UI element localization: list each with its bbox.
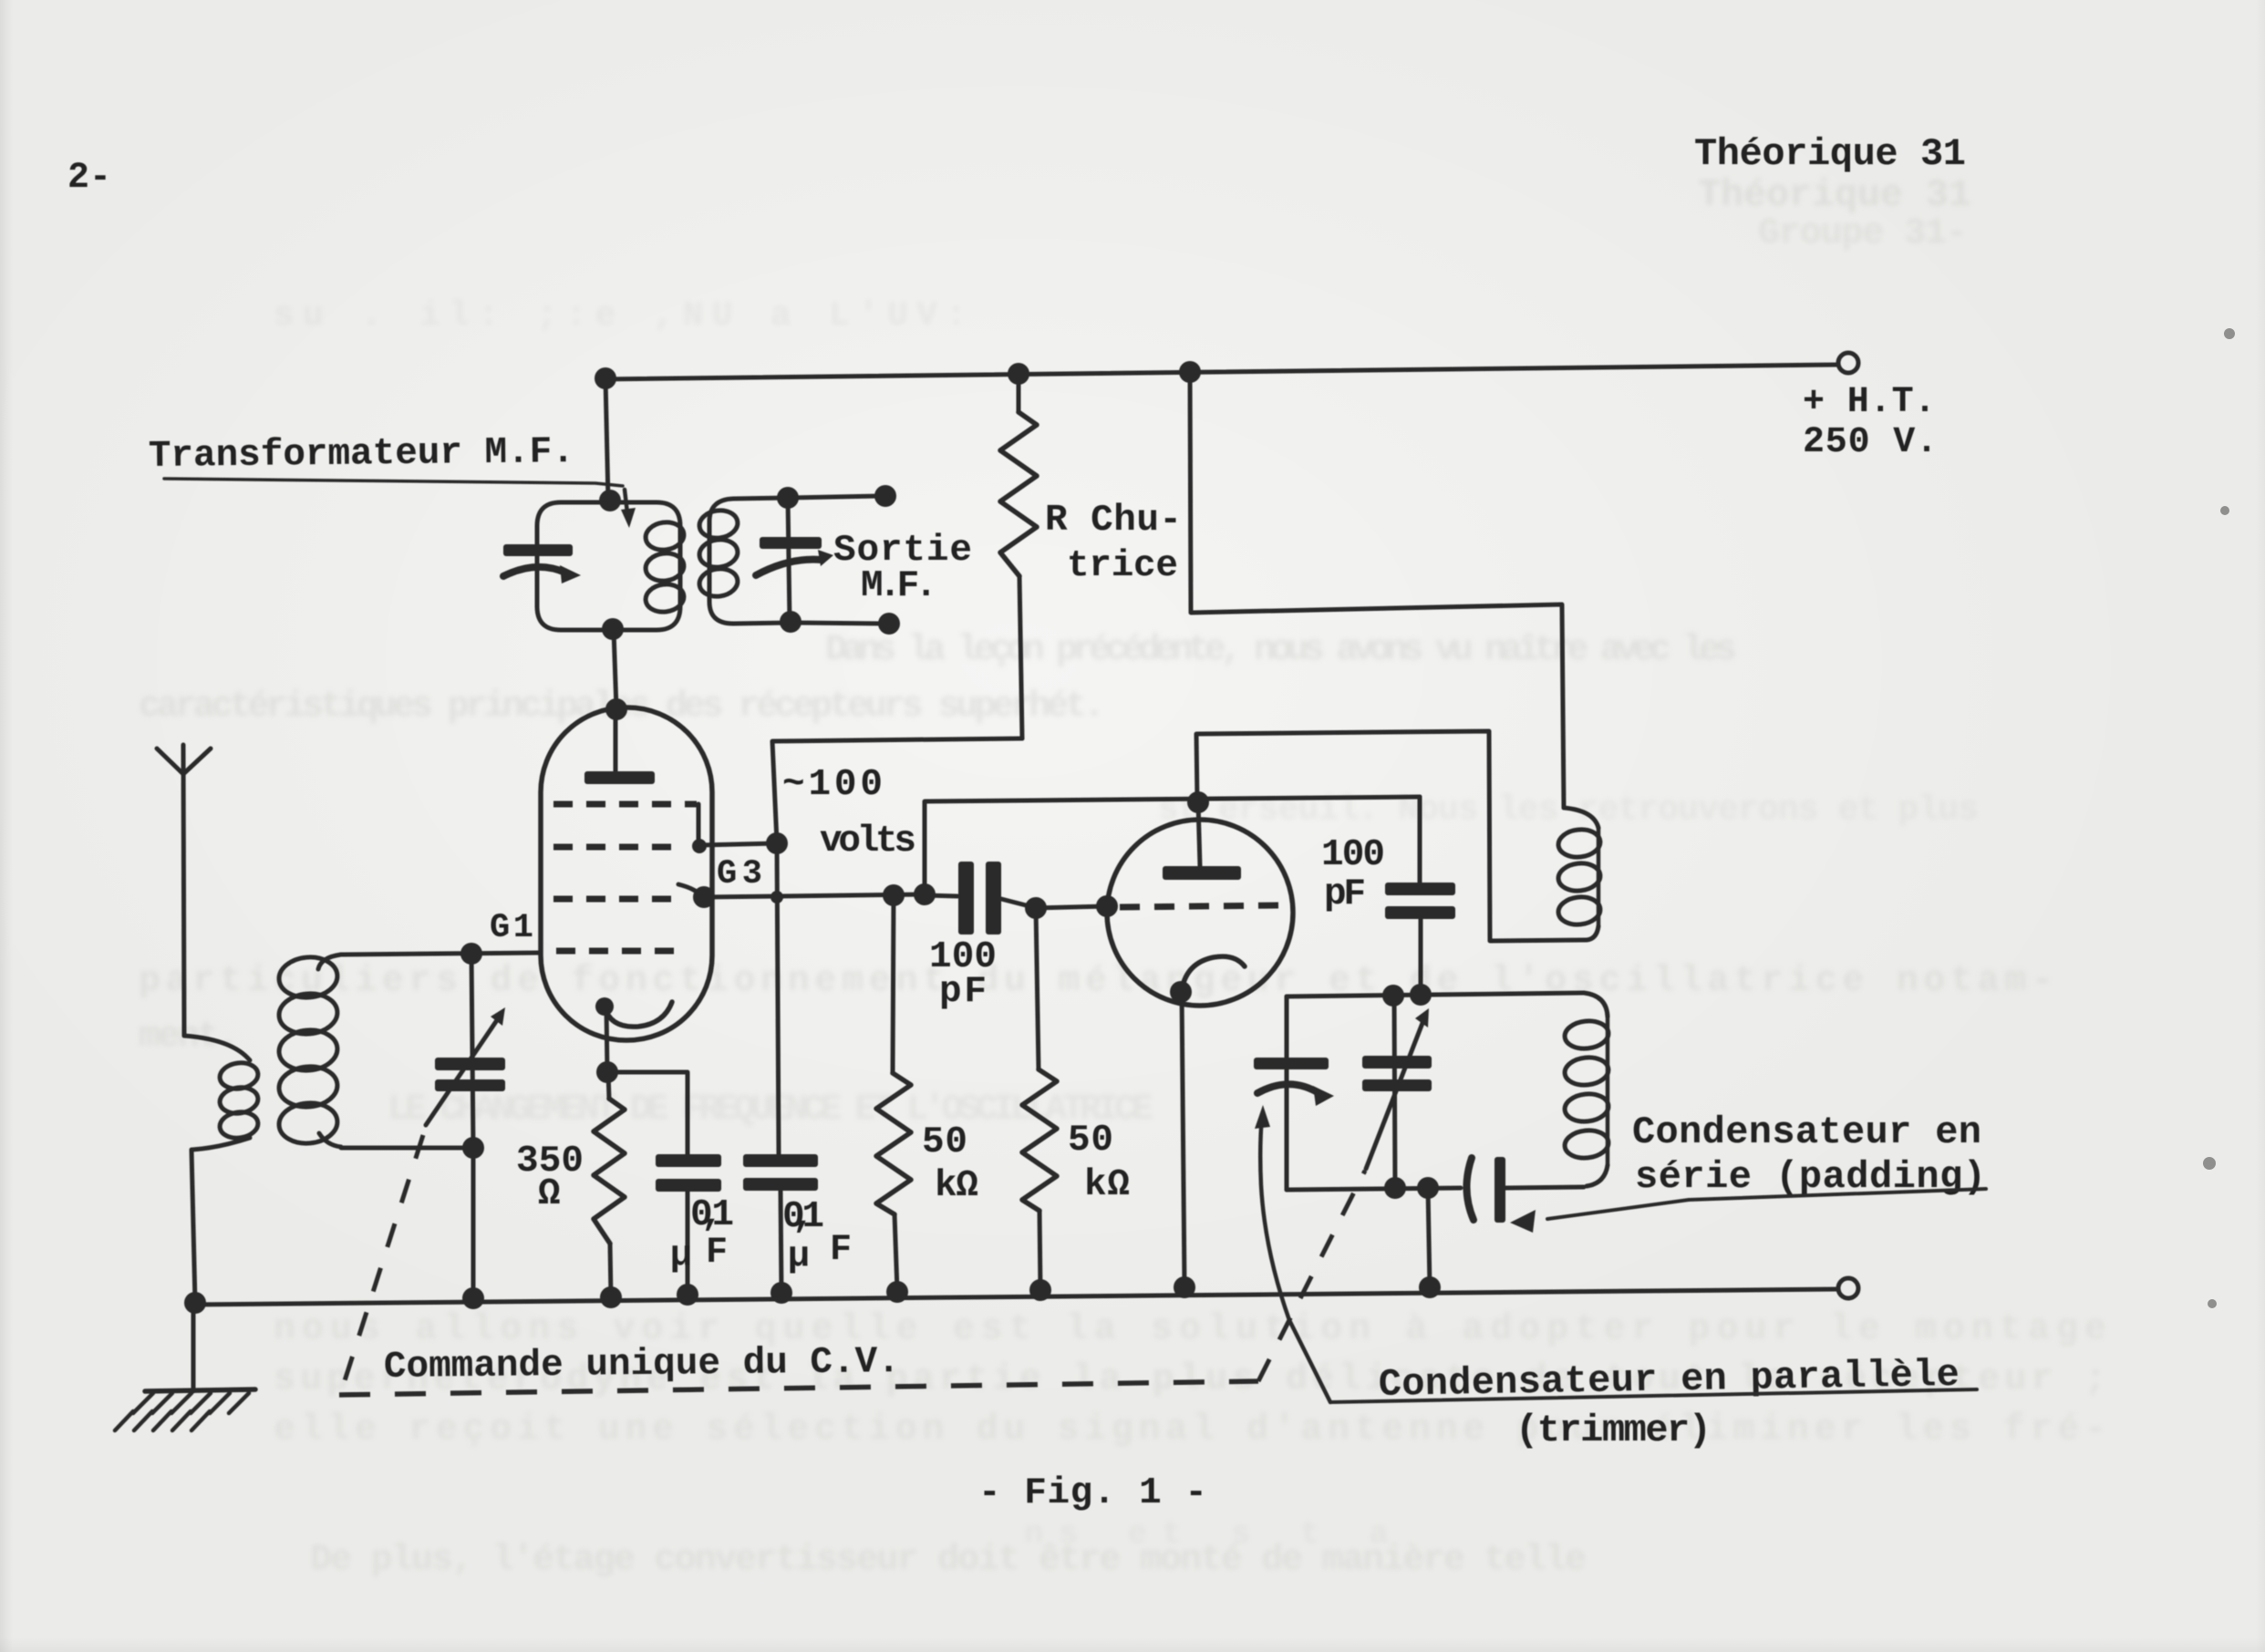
- V1 grid G1 (dashed): [556, 948, 678, 955]
- arrow to IF transformer: [625, 490, 627, 513]
- IF transformer primary tank box: [537, 502, 680, 630]
- tube V1 heptode envelope: [541, 707, 712, 1040]
- node: bus / R chutrice junction: [1008, 363, 1029, 385]
- paper specks: [2203, 328, 2235, 1308]
- antenna: [183, 745, 184, 1036]
- variable capacitor of IF primary: curved plate with arrow: [503, 567, 565, 576]
- CV input arrow: [426, 1017, 499, 1125]
- wire: input tank top to G1: [341, 953, 541, 955]
- node: corner to anode line: [914, 883, 936, 905]
- svg-text:2-: 2-: [67, 158, 111, 199]
- variable capacitor of IF secondary: curved plate with arrow: [756, 560, 822, 575]
- coil of IF primary (3 loops): [644, 520, 686, 552]
- node: V1 cathode junction: [596, 1061, 618, 1083]
- svg-text:elle reçoit une sélection du s: elle reçoit une sélection du signal d'an…: [274, 1409, 2106, 1451]
- node: screen feed / tube screen tie: [766, 832, 788, 854]
- wire: stub to coupling cap: [925, 895, 957, 896]
- svg-text:G3: G3: [717, 855, 762, 893]
- node: bus / oscillator feed junction: [1179, 361, 1201, 383]
- svg-text:trice: trice: [1067, 545, 1178, 587]
- svg-text:R Chu-: R Chu-: [1045, 500, 1182, 542]
- V1 cathode: [605, 1002, 672, 1027]
- wire: secondary top stub: [788, 496, 881, 498]
- svg-text:G1: G1: [490, 909, 533, 947]
- node: G1 / tuning cap top: [460, 943, 482, 965]
- dashed gang line: left diagonal: [341, 1135, 423, 1392]
- svg-text:0,1: 0,1: [782, 1196, 824, 1238]
- wire: tank left branch: [1285, 996, 1289, 1190]
- trimmer capacitor: top plate: [1254, 1058, 1329, 1069]
- svg-text:- Fig. 1 -: - Fig. 1 -: [978, 1472, 1207, 1514]
- CV oscillator arrow: [1366, 1018, 1424, 1169]
- svg-text:pF: pF: [1324, 873, 1366, 915]
- underline: [1330, 1389, 1977, 1402]
- wire: cathode to 0,1uF no.1: [607, 1072, 688, 1154]
- oscillator tank coil: [1584, 993, 1608, 1017]
- svg-text:kΩ: kΩ: [935, 1165, 978, 1207]
- node: crossing at G3 line: [771, 891, 783, 903]
- V1 screen bracket: [697, 804, 701, 845]
- variable capacitor CV osc : stems and plates: [1394, 996, 1395, 1188]
- terminal: Sortie MF bottom (dot): [878, 613, 900, 635]
- svg-text:250 V.: 250 V.: [1803, 422, 1938, 463]
- wire: secondary center branch: [788, 498, 790, 622]
- wire: triode cathode to ground bus: [1182, 992, 1184, 1286]
- svg-text:50: 50: [922, 1121, 967, 1163]
- node: G3 lead: [693, 886, 715, 908]
- ground symbol: [145, 1389, 255, 1391]
- wire: tank top line: [1287, 993, 1584, 996]
- trimmer capacitor: curved plate: [1257, 1084, 1320, 1094]
- svg-text:su . il: ;:e ,NU a L'UV:: su . il: ;:e ,NU a L'UV:: [274, 296, 967, 336]
- svg-text:Ω: Ω: [538, 1173, 561, 1215]
- svg-text:volts: volts: [820, 821, 916, 862]
- wire: anode line corner down: [1418, 797, 1422, 883]
- curved leader arrow to trimmer cap: [1260, 1116, 1330, 1402]
- svg-text:Groupe 31-: Groupe 31-: [1758, 213, 1968, 254]
- terminal: ground bus right (open circle): [1838, 1278, 1858, 1298]
- V2 anode: [1198, 802, 1200, 866]
- node: triode anode junction: [1187, 791, 1209, 813]
- wire: +HT top bus: [602, 365, 1838, 379]
- padding capacitor (série): curved plate: [1466, 1158, 1474, 1220]
- node: IF secondary top: [777, 487, 799, 509]
- wire: input tank bottom: [341, 1146, 473, 1151]
- svg-text:kΩ: kΩ: [1084, 1164, 1130, 1206]
- wire: tie to tube screen bracket: [700, 843, 777, 845]
- node: anode top cap: [605, 698, 627, 720]
- V1 grid G2 (dashed): [553, 896, 673, 903]
- wire: R chutrice to screen feed: [772, 738, 1022, 842]
- V1 anode: [614, 709, 618, 773]
- capacitor 0,1uF no.2: [743, 1154, 818, 1167]
- faint bleed-through text (decorative, from page verso): [139, 173, 2106, 1581]
- node: 50k no.1 top: [883, 884, 905, 906]
- capacitor 100pF coupling (vertical plates): [958, 862, 974, 934]
- svg-text:M.F.: M.F.: [861, 565, 937, 607]
- padding capacitor: straight plate: [1494, 1157, 1505, 1223]
- svg-text:Commande unique du C.V.: Commande unique du C.V.: [384, 1341, 900, 1389]
- node: input tank bottom: [462, 1137, 484, 1159]
- svg-text:particuliers de fonctionnement: particuliers de fonctionnement du mélang…: [139, 961, 2053, 1002]
- node: bus / IF transformer junction: [595, 367, 616, 389]
- wire: secondary bottom stub: [791, 623, 884, 624]
- wire: tank bottom line: [1287, 1188, 1461, 1190]
- svg-text:Théorique 31: Théorique 31: [1698, 173, 1971, 217]
- svg-text:+ H.T.: + H.T.: [1803, 382, 1936, 423]
- V1 grid G4 (dashed): [553, 801, 697, 808]
- terminal: Sortie MF top (dot): [874, 485, 896, 507]
- resistor R chutrice: [1017, 374, 1021, 412]
- svg-text:(trimmer): (trimmer): [1515, 1409, 1712, 1452]
- svg-text:50: 50: [1068, 1120, 1113, 1162]
- wire: screen feed down to 0,1uF: [777, 843, 779, 1154]
- capacitor 0,1uF no.1: [656, 1154, 721, 1167]
- dashed gang line: horizontal: [339, 1381, 1258, 1395]
- variable capacitor of IF primary: top plate: [503, 544, 573, 556]
- resistor 350 ohm: [608, 1072, 609, 1099]
- leader line under label: [164, 479, 623, 486]
- wire: G3 line: [704, 894, 925, 897]
- svg-text:Condensateur en: Condensateur en: [1632, 1110, 1981, 1154]
- svg-text:µ: µ: [788, 1236, 810, 1277]
- capacitor 100pF oscillator: [1385, 883, 1455, 895]
- svg-text:Théorique 31: Théorique 31: [1694, 132, 1966, 176]
- svg-text:Transformateur M.F.: Transformateur M.F.: [149, 431, 574, 478]
- node: IF primary bottom: [602, 618, 624, 640]
- wire: bus to ground: [191, 1303, 196, 1391]
- wire: bus to IF primary: [605, 378, 608, 501]
- underline and leader to padding cap: [1547, 1189, 1986, 1219]
- node: IF secondary bottom: [780, 611, 802, 633]
- svg-text:F: F: [706, 1233, 728, 1274]
- svg-text:µ: µ: [670, 1235, 692, 1276]
- bus junction nodes: [184, 1292, 206, 1314]
- wire: ground bus: [188, 1289, 1838, 1305]
- dashed gang line: right diagonal: [1258, 1171, 1365, 1381]
- resistor 50k no.2: [1036, 908, 1039, 1069]
- svg-text:De plus, l'étage convertisseur: De plus, l'étage convertisseur doit être…: [310, 1540, 1587, 1581]
- IF secondary tank box: [709, 498, 791, 624]
- terminal +HT 250V (open circle): [1838, 353, 1858, 373]
- wire: cap to triode grid: [1001, 899, 1033, 907]
- V2 cathode: [1182, 956, 1245, 990]
- wire: corner up and anode line: [925, 797, 1420, 894]
- oscillator feedback coil: [1564, 808, 1598, 828]
- resistor 50k no.1: [893, 895, 894, 1073]
- input tuned coil (secondary, 5 loops): [318, 955, 341, 969]
- V1 G3 hook: [678, 884, 702, 897]
- variable capacitor of IF secondary: top plate: [760, 537, 822, 549]
- wire: padding to tank coil: [1505, 1187, 1584, 1188]
- svg-text:~100: ~100: [782, 764, 883, 806]
- V2 grid (dashed): [1120, 905, 1280, 907]
- wire: feedback coil bottom to triode anode (inner L): [1196, 731, 1587, 941]
- svg-text:F: F: [830, 1230, 852, 1271]
- wire: tank bottom to ground bus: [1428, 1188, 1430, 1287]
- tuning capacitor CV input: stems and plates: [471, 954, 473, 1148]
- wire: IF primary to tube anode: [614, 630, 616, 709]
- tube V2 triode envelope: [1107, 820, 1293, 1006]
- V1 grid G3 (dashed): [553, 844, 678, 851]
- coil of IF secondary (3 loops): [698, 508, 739, 541]
- wire: antenna coil to ground bus: [191, 1150, 195, 1303]
- node: IF primary top: [599, 490, 621, 511]
- svg-text:100: 100: [1321, 834, 1385, 876]
- wire: bus down to feedback coil (outer L): [1190, 372, 1564, 808]
- svg-text:Dans la leçon précédente, nous: Dans la leçon précédente, nous avons vu …: [825, 630, 1737, 671]
- svg-text:0,1: 0,1: [690, 1194, 734, 1236]
- antenna coupling coil (primary, 3 loops): [184, 1036, 250, 1060]
